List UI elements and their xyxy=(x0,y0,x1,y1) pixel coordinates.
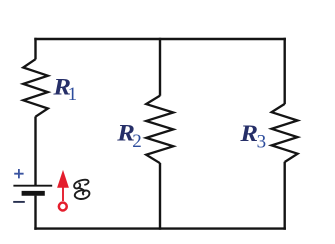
wire right upper xyxy=(284,38,286,104)
emf arrow (red) xyxy=(62,186,64,201)
resistor R1 xyxy=(23,59,48,116)
battery negative plate (short thick) xyxy=(22,191,45,196)
resistor R2 xyxy=(146,96,173,164)
emf arrow tail circle xyxy=(59,203,67,211)
emf script-E symbol xyxy=(74,180,89,199)
label R1 xyxy=(52,75,71,100)
wire middle lower xyxy=(159,163,161,230)
wire left lower (battery to bottom) xyxy=(34,196,36,230)
wire middle upper xyxy=(159,38,161,96)
wire left upper xyxy=(34,38,36,60)
battery minus sign xyxy=(13,201,25,203)
wire right lower xyxy=(284,162,286,230)
battery plus sign xyxy=(14,169,23,178)
svg-text:R: R xyxy=(239,122,258,147)
wire left middle (R1 to battery) xyxy=(34,117,36,186)
svg-text:1: 1 xyxy=(68,84,78,105)
battery positive plate (long thin) xyxy=(13,185,52,187)
label R2 xyxy=(116,121,135,146)
wire top xyxy=(34,38,286,40)
wire bottom xyxy=(34,227,286,229)
svg-text:2: 2 xyxy=(132,131,142,152)
resistor R3 xyxy=(272,104,298,162)
svg-text:3: 3 xyxy=(257,131,267,152)
label R3 xyxy=(239,122,258,147)
